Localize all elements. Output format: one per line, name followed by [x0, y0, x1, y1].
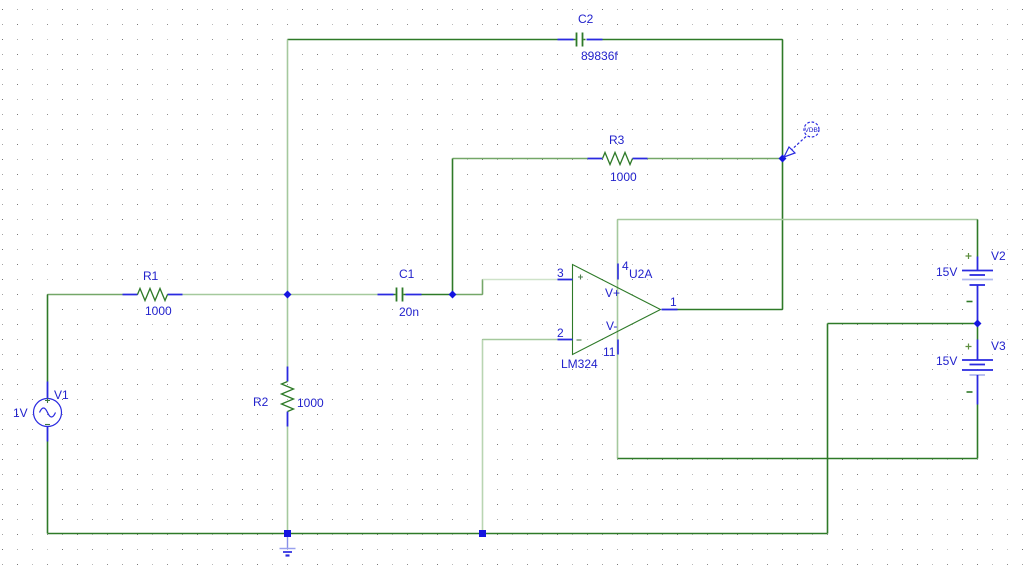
svg-text:1V: 1V — [13, 406, 28, 420]
svg-text:V+: V+ — [605, 286, 620, 300]
wire x452 vertical R3 to C1 node — [452, 159, 454, 295]
ground — [280, 536, 296, 556]
svg-text:LM324: LM324 — [561, 357, 598, 371]
svg-text:V3: V3 — [991, 339, 1006, 353]
svg-text:20n: 20n — [399, 305, 419, 319]
svg-text:R2: R2 — [253, 395, 269, 409]
svg-text:C1: C1 — [399, 267, 415, 281]
wire step up — [482, 280, 484, 295]
wire V3 top lead — [977, 324, 979, 340]
svg-text:1000: 1000 — [297, 396, 324, 410]
junction ground rail left — [284, 530, 291, 537]
svg-text:R1: R1 — [143, 269, 159, 283]
junction node C1/R3 — [449, 291, 457, 299]
svg-text:1000: 1000 — [145, 304, 172, 318]
svg-text:C2: C2 — [578, 12, 594, 26]
wire power bottom rail — [618, 458, 978, 460]
wire V2 top lead — [977, 220, 979, 257]
wire node to step — [453, 294, 483, 296]
svg-text:V1: V1 — [54, 388, 69, 402]
wire x827 to battery midpoint — [828, 323, 978, 325]
svg-text:2: 2 — [557, 326, 564, 340]
svg-text:U2A: U2A — [629, 267, 652, 281]
wire V1 corner to R1 — [48, 294, 123, 296]
resistor R1 — [123, 289, 183, 301]
battery V2 — [962, 253, 993, 324]
svg-text:1: 1 — [670, 295, 677, 309]
voltage source V1 — [34, 382, 62, 442]
wire x287 below R2 — [287, 427, 289, 534]
wire V1 bottom lead — [47, 442, 49, 534]
wire op-amp output to x782 — [678, 309, 783, 311]
wire V1 top lead — [47, 295, 49, 382]
wire x287 vertical top — [287, 40, 289, 295]
svg-text:R3: R3 — [609, 133, 625, 147]
wire node to C1 — [288, 294, 378, 296]
wire R3 left — [453, 158, 588, 160]
wire x287 node to R2 — [287, 295, 289, 367]
wire right vertical x782 — [782, 40, 784, 310]
svg-text:15V: 15V — [936, 265, 957, 279]
wire pin2 down to ground net — [482, 340, 484, 534]
wire pin2 horizontal — [483, 339, 558, 341]
wire C1 to node x452 — [422, 294, 453, 296]
wire top-left horizontal to C2 — [288, 39, 558, 41]
op-amp U2A — [558, 264, 678, 355]
svg-text:4: 4 — [622, 259, 629, 273]
resistor R3 — [588, 153, 648, 165]
wire V3 bottom lead — [977, 405, 979, 459]
wire step to pin3 — [483, 279, 558, 281]
svg-text:11: 11 — [603, 345, 616, 359]
wire R1 to node — [183, 294, 288, 296]
voltage probe — [784, 122, 819, 157]
wire R3 right — [648, 158, 783, 160]
wire power left vertical x617 — [617, 220, 619, 459]
capacitor C2 — [558, 33, 603, 47]
svg-text:VDB: VDB — [805, 127, 818, 134]
svg-text:V2: V2 — [991, 249, 1006, 263]
battery V3 — [962, 340, 993, 405]
resistor R2 — [282, 367, 294, 427]
svg-text:V-: V- — [606, 319, 617, 333]
svg-text:3: 3 — [557, 266, 564, 280]
svg-text:15V: 15V — [936, 354, 957, 368]
wire x827 vertical — [827, 324, 829, 534]
wire bottom ground rail — [48, 533, 828, 535]
capacitor C1 — [378, 288, 422, 302]
wire C2 to top-right corner — [603, 39, 783, 41]
junction node V2/V3 — [974, 320, 982, 328]
junction node R1/R2/C1 — [284, 291, 292, 299]
svg-text:1000: 1000 — [610, 170, 637, 184]
junction node output/R3 — [779, 155, 787, 163]
svg-text:89836f: 89836f — [581, 49, 618, 63]
junction ground rail right — [479, 530, 486, 537]
wire power top rail — [618, 219, 978, 221]
